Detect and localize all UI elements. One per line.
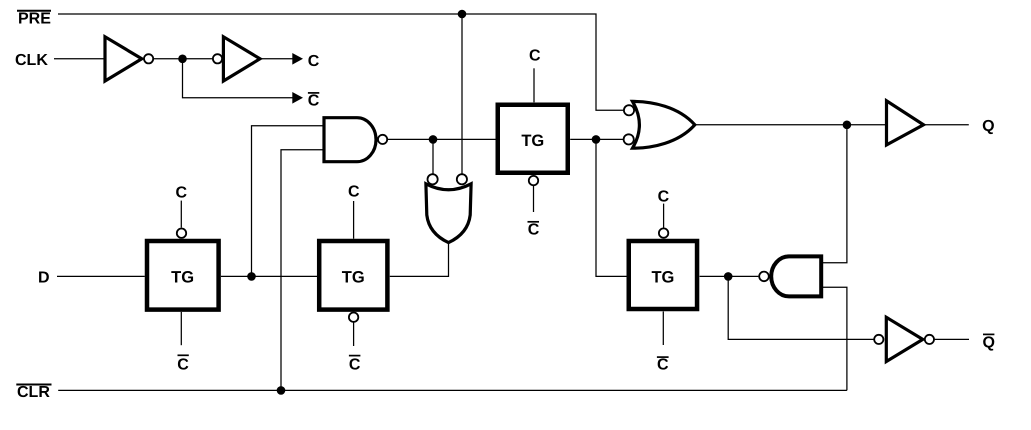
inverter U1 xyxy=(105,37,153,81)
wire TG1 bottom xyxy=(180,312,182,345)
bubble TG3 bottom xyxy=(529,176,538,185)
node Q junction xyxy=(843,121,852,130)
label C-bar below TG4 xyxy=(657,356,669,373)
node CLR junction xyxy=(277,386,286,395)
wire C to TG4 top bubble xyxy=(663,204,665,228)
bubble TG1 top xyxy=(177,229,186,238)
svg-text:TG: TG xyxy=(521,132,544,150)
label C-bar below TG3 xyxy=(528,222,540,239)
svg-text:C: C xyxy=(176,184,188,201)
wire down to NOR G2 left input bubble xyxy=(432,139,434,174)
buffer U2 with input bubble xyxy=(213,37,260,81)
wire TG3 bottom xyxy=(533,186,535,212)
NAND gate G4 (mirrored, output left) xyxy=(759,256,821,296)
svg-text:C: C xyxy=(657,356,669,373)
svg-text:C: C xyxy=(177,356,189,373)
net PRE label xyxy=(17,11,51,28)
wire C to TG1 top bubble xyxy=(180,201,182,228)
wire TG2 bottom xyxy=(353,322,355,346)
node G1 output junction xyxy=(429,135,438,144)
svg-text:D: D xyxy=(38,270,50,287)
inverter U4 (both bubbles) xyxy=(874,317,934,361)
wire U1 output to U2 xyxy=(153,58,213,60)
svg-text:C: C xyxy=(658,189,670,206)
NAND gate G1 xyxy=(324,118,387,162)
wire CLR up to NAND G4 input 2 xyxy=(822,287,847,390)
svg-text:Q: Q xyxy=(982,334,994,351)
arrowhead C xyxy=(292,53,303,65)
wire down to inverter U4 input xyxy=(728,276,874,339)
svg-text:C: C xyxy=(348,184,360,201)
svg-text:C: C xyxy=(308,92,320,109)
node A junction xyxy=(247,272,256,281)
svg-text:CLR: CLR xyxy=(17,384,50,401)
wire C to TG3 top xyxy=(533,68,535,102)
node TG3 output junction xyxy=(592,135,601,144)
wire Q node down to NAND G4 input 1 xyxy=(822,125,847,263)
net Q-bar label xyxy=(982,334,994,351)
NOR gate G2 (vertical, inputs inverted) xyxy=(426,174,471,242)
wire CLK input xyxy=(54,58,105,60)
buffer U3 xyxy=(887,101,924,145)
wire PRE down to NOR input bubble xyxy=(461,14,463,174)
label C-bar below TG1 xyxy=(177,355,189,373)
bubble TG4 top xyxy=(659,228,668,237)
svg-text:TG: TG xyxy=(171,269,194,287)
net C-bar output label xyxy=(308,92,320,109)
wire TG3 output to OR G3 lower input xyxy=(570,138,623,140)
svg-text:C: C xyxy=(308,53,320,70)
wire G1 output to TG3 input xyxy=(387,138,495,140)
label C-bar below TG2 xyxy=(349,356,361,374)
node PRE junction xyxy=(458,10,467,19)
wire U3 output xyxy=(924,124,969,126)
arrowhead C-bar xyxy=(292,92,303,104)
svg-text:CLK: CLK xyxy=(15,52,48,69)
svg-text:Q: Q xyxy=(982,118,994,135)
svg-text:C: C xyxy=(349,356,361,373)
svg-text:TG: TG xyxy=(342,269,365,287)
wire TG4 bottom xyxy=(662,312,664,346)
wire U4 output xyxy=(934,338,969,340)
transmission gate TG1 xyxy=(147,241,219,310)
net CLR label xyxy=(16,384,51,401)
bubble TG2 bottom xyxy=(349,313,358,322)
wire feedback down to TG4 input xyxy=(596,139,627,276)
wire C to TG2 top xyxy=(353,201,355,239)
wire node A up to NAND G1 input 1 xyxy=(252,126,325,277)
wire branch down to C-bar arrow xyxy=(183,59,294,98)
wire D input to TG1 xyxy=(57,275,145,277)
wire TG1 output to TG2 input xyxy=(221,275,317,277)
transmission gate TG3 xyxy=(498,105,568,173)
wire G2 output down to TG2 output net xyxy=(390,243,449,277)
wire U2 output to C arrow xyxy=(260,58,293,60)
node TG4 output junction xyxy=(724,272,733,281)
svg-text:C: C xyxy=(528,222,540,239)
node CLK internal junction xyxy=(178,55,187,64)
wire TG4 output to G4 output bubble xyxy=(700,275,759,277)
wire CLR horizontal xyxy=(58,389,847,391)
OR gate G3 (inputs inverted) xyxy=(624,101,695,148)
svg-text:C: C xyxy=(529,48,541,65)
wire G3 output to buffer U3 xyxy=(695,124,887,126)
transmission gate TG2 xyxy=(319,241,387,310)
wire PRE horizontal to OR gate top input xyxy=(58,14,624,110)
wire CLR branch up to NAND G1 input 2 xyxy=(281,150,324,391)
transmission gate TG4 xyxy=(629,241,697,309)
svg-text:PRE: PRE xyxy=(18,11,51,28)
svg-text:TG: TG xyxy=(651,268,674,286)
